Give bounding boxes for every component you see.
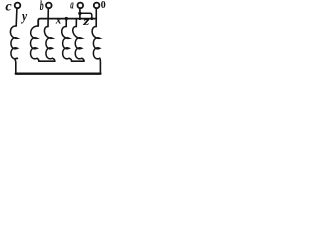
junction dot jumper-neutral	[90, 17, 93, 20]
wire: coil 1 bottom to bottom bus	[15, 58, 17, 73]
svg-text:c: c	[5, 0, 12, 15]
junction blob a-stem at wire N	[79, 17, 82, 20]
terminal circle c	[15, 3, 21, 9]
svg-text:z: z	[82, 16, 90, 29]
svg-text:a: a	[70, 0, 73, 12]
svg-text:x: x	[55, 15, 62, 27]
wire: bottom bus	[16, 72, 101, 74]
wire: drop from neutral to coil 4	[65, 19, 67, 27]
wire: drop from wire N to coil 5	[75, 19, 77, 27]
wire: coil 5 bottom to link wire	[82, 58, 84, 61]
wire: coil 6 bottom down to bottom bus	[99, 58, 102, 73]
svg-text:b: b	[40, 0, 44, 14]
junction dot (neutral to coil 4)	[65, 17, 68, 20]
terminal circle a	[78, 3, 84, 9]
wire: stem from terminal c down	[15, 8, 18, 26]
coil 6 (winding c second half)	[92, 26, 100, 58]
wire: stem from terminal a down to wire N	[79, 8, 81, 19]
wire: link between coil 2 and coil 3 bottoms	[39, 60, 55, 62]
junction dot on stem a	[78, 12, 81, 15]
wire: coil 3 bottom to link wire	[52, 58, 54, 61]
wire: coil 4 bottom to link wire	[69, 58, 72, 61]
terminal circle b	[46, 3, 52, 9]
wire: link between coil 4 and coil 5 bottoms	[72, 60, 84, 62]
svg-text:y: y	[20, 9, 27, 24]
wire: jumper from dot to neutral drop	[80, 13, 92, 18]
wire: stem from terminal b down through wire N to coil 3	[47, 8, 49, 26]
wire: coil 2 bottom to link wire	[37, 58, 39, 61]
coil 2 (winding b second half)	[31, 26, 39, 59]
coil 1 (winding c-y)	[10, 26, 17, 59]
coil 5 (winding a first half)	[73, 26, 82, 58]
svg-text:0: 0	[101, 0, 106, 11]
coil 4 (winding a second half)	[62, 26, 69, 58]
wire N (neutral) horizontal	[38, 19, 96, 26]
wire: stem from terminal 0 down through wire N to coil 6	[95, 8, 97, 26]
terminal circle 0	[94, 3, 100, 9]
coil 3 (winding b first half)	[44, 26, 52, 58]
